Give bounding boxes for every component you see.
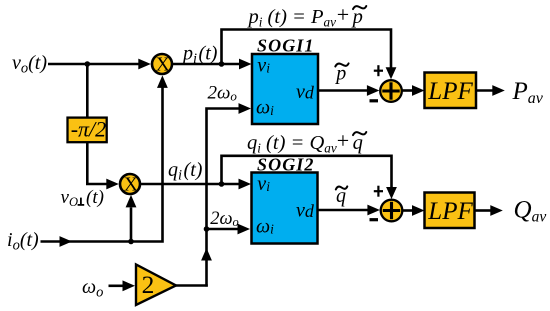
label minus sign at S2 <box>370 218 379 221</box>
node vo junction <box>85 61 91 67</box>
wire omega bus branch to SOGI2 omega_i <box>207 228 239 231</box>
wire S1 to LPF1 <box>402 89 414 92</box>
wire gain output to omega bus <box>174 284 208 287</box>
label plus sign at S2 <box>374 186 383 197</box>
svg-text:qi(t): qi(t) <box>168 159 203 184</box>
wire LPF1 output <box>476 89 493 92</box>
svg-text:+: + <box>337 2 349 27</box>
wire X2 output q_i to SOGI2 v_i <box>141 183 239 186</box>
node qi junction <box>219 181 225 187</box>
node pi junction <box>219 61 225 67</box>
svg-text:+: + <box>337 128 349 153</box>
svg-text:2: 2 <box>142 270 155 299</box>
node omega bus junction <box>204 226 210 232</box>
block SOGI2 <box>252 173 318 244</box>
wire io junction up to X2 bottom <box>130 208 133 242</box>
svg-text:LPF: LPF <box>427 198 473 225</box>
block LPF2 <box>425 193 475 229</box>
summing junction S2 <box>381 200 403 222</box>
svg-text:Qav: Qav <box>514 197 547 226</box>
summing junction S1 <box>380 80 402 102</box>
svg-text:ωo: ωo <box>82 276 103 301</box>
label plus sign at S1 <box>374 65 383 76</box>
svg-text:q: q <box>353 132 363 154</box>
svg-text:2ωo: 2ωo <box>208 82 238 103</box>
svg-text:vd: vd <box>296 81 315 103</box>
svg-text:vO: vO <box>61 187 78 209</box>
block LPF1 <box>425 73 477 109</box>
multiplier X1 <box>152 54 172 74</box>
svg-text:vo(t): vo(t) <box>12 52 47 77</box>
wire pi feedforward up and right to summer S1 <box>222 30 392 69</box>
svg-text:(t): (t) <box>86 187 104 208</box>
wire qi feedforward up and right to summer S2 <box>222 156 392 188</box>
svg-text:io(t): io(t) <box>7 229 39 254</box>
svg-text:vd: vd <box>296 199 315 221</box>
wire omega bus vertical and into SOGI1 omega_i <box>207 109 240 287</box>
svg-text:-π/2: -π/2 <box>71 116 106 141</box>
wire SOGI2 v_d output to summer S2 <box>318 209 368 212</box>
svg-text:X: X <box>124 175 138 196</box>
node io junction <box>128 239 134 245</box>
multiplier X2 <box>120 174 140 194</box>
wire -pi/2 block to multiplier X2 <box>87 142 107 184</box>
block -pi/2 phase shift <box>68 118 107 143</box>
wire vo junction down to -pi/2 block <box>86 64 89 119</box>
svg-text:SOGI1: SOGI1 <box>257 36 315 56</box>
wire vo input to multiplier X1 <box>48 63 140 66</box>
svg-text:LPF: LPF <box>427 78 473 105</box>
wire io input to X1 bottom <box>41 87 163 242</box>
svg-text:pi (t) = Pav: pi (t) = Pav <box>247 6 337 30</box>
wire X1 output p_i to SOGI1 v_i <box>173 63 240 66</box>
svg-text:2ωo: 2ωo <box>210 209 239 229</box>
gain block 2 (triangle) <box>136 265 176 306</box>
wire S2 to LPF2 <box>402 209 413 212</box>
wire SOGI1 v_d output to summer S1 <box>318 89 367 92</box>
wire LPF2 output <box>475 209 491 212</box>
svg-text:SOGI2: SOGI2 <box>257 154 315 174</box>
block SOGI1 <box>252 54 318 124</box>
svg-text:qi (t) = Qav: qi (t) = Qav <box>247 132 337 156</box>
wire omega_o to gain block <box>109 284 124 287</box>
svg-text:X: X <box>156 54 170 75</box>
svg-text:Pav: Pav <box>512 78 544 107</box>
label minus sign at S1 <box>370 99 379 102</box>
mid arrow on io wire <box>60 236 73 247</box>
mid arrow up on omega bus <box>201 248 212 261</box>
